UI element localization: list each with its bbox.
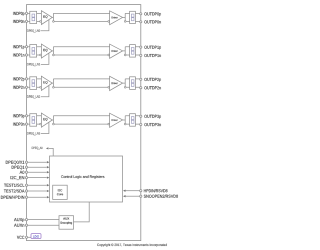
channel 0 output wires [135, 13, 139, 21]
wire VCC to LDO [28, 236, 31, 238]
output pin OUTDP0n [140, 21, 142, 23]
EQ amplifier ch1 [41, 44, 52, 58]
driver inverting input bubble [108, 21, 110, 23]
channel 0 input wires [28, 13, 42, 21]
EQ output bar and wires to driver [52, 13, 109, 21]
wire AUXp [28, 219, 59, 221]
pin AUXp [25, 219, 27, 221]
output pin OUTDP2p [140, 78, 142, 80]
output pin OUTDP0p [140, 13, 142, 15]
channel 1 input wires [28, 47, 42, 55]
input pin INDP1p [25, 46, 27, 48]
output coupling caps block ch2 [130, 77, 136, 90]
EQ inverting output bubble [53, 21, 55, 23]
wire I2C_EN to control logic [28, 177, 47, 179]
output pin OUTDP2n [140, 87, 142, 89]
control pin DPEQ0/X1 [25, 161, 27, 163]
channel 2 input wires [28, 79, 42, 87]
EQ inverting input bubble [40, 86, 42, 88]
input pin INDP1n [25, 54, 27, 56]
input coupling caps block ch0 [30, 11, 37, 23]
control pin A0 [25, 171, 27, 173]
input coupling caps block ch3 [30, 114, 37, 127]
wire DPEQ1 to control logic [28, 166, 47, 168]
wire DPEQ0/X1 to control logic [28, 161, 47, 163]
driver inverting output bubble [124, 86, 126, 88]
pin VCC [25, 236, 27, 238]
EQ select net DPEQ_LN1 [41, 53, 49, 64]
driver output bar and wires [123, 116, 130, 124]
input pin INDP3n [25, 123, 27, 125]
control pin TEST1/SCL [25, 184, 27, 186]
driver output bar and wires [123, 47, 130, 55]
wire HPDIN to control logic [125, 190, 139, 192]
wire AUXn [28, 224, 59, 226]
output pin OUTDP3n [140, 123, 142, 125]
driver inverting output bubble [124, 54, 126, 56]
control logic block [50, 156, 123, 202]
EQ amplifier ch0 [41, 11, 52, 25]
driver amplifier ch1 [110, 44, 123, 58]
wire AUX block to control logic [74, 202, 90, 222]
AUX snooping block [59, 216, 74, 230]
driver inverting output bubble [124, 123, 126, 125]
control pin DPEQ1 [25, 166, 27, 168]
control pin DPEN/HPDIN [25, 196, 27, 198]
EQ inverting output bubble [53, 86, 55, 88]
output coupling caps block ch3 [130, 114, 136, 127]
EQ inverting output bubble [53, 123, 55, 125]
EQ output bar and wires to driver [52, 47, 109, 55]
EQ inverting input bubble [40, 54, 42, 56]
EQ select net DPEQ_LN3 [41, 122, 49, 133]
driver inverting input bubble [108, 54, 110, 56]
driver inverting output bubble [124, 21, 126, 23]
input pin INDP0n [25, 20, 27, 22]
control pin TEST2/SDA [25, 190, 27, 192]
driver inverting input bubble [108, 123, 110, 125]
driver output bar and wires [123, 79, 130, 87]
input pin INDP2p [25, 78, 27, 80]
LDO regulator link box [31, 234, 41, 239]
driver amplifier ch2 [110, 76, 123, 90]
wire TEST2/SDA to control logic [28, 190, 47, 192]
pin AUXn [25, 224, 27, 226]
channel 1 output wires [135, 47, 139, 55]
EQ amplifier ch2 [41, 76, 52, 90]
chip outline [27, 5, 141, 241]
EQ output bar and wires to driver [52, 116, 109, 124]
wire TEST1/SCL to control logic [28, 184, 47, 186]
EQ amplifier ch3 [41, 113, 52, 127]
channel 3 output wires [135, 116, 139, 124]
output coupling caps block ch1 [130, 45, 136, 58]
input pin INDP0p [25, 12, 27, 14]
EQ inverting output bubble [53, 54, 55, 56]
EQ output bar and wires to driver [52, 79, 109, 87]
EQ select net DPEQ_LN0 [41, 20, 49, 31]
output coupling caps block ch0 [130, 11, 136, 23]
output pin OUTDP1p [140, 46, 142, 48]
channel 2 output wires [135, 79, 139, 87]
input coupling caps block ch1 [30, 45, 37, 58]
output pin OUTDP3p [140, 115, 142, 117]
wire DPEN/HPDIN to control logic [28, 196, 47, 198]
driver amplifier ch0 [110, 11, 123, 25]
input coupling caps block ch2 [30, 77, 37, 90]
control pin I2C_EN [25, 177, 27, 179]
wire SNOOPEN2 to control logic [125, 195, 139, 197]
driver output bar and wires [123, 13, 130, 21]
output pin OUTDP1n [140, 54, 142, 56]
channel 3 input wires [28, 116, 42, 124]
input pin INDP2n [25, 86, 27, 88]
I2C core block [53, 185, 67, 199]
input pin INDP3p [25, 115, 27, 117]
copyright note [97, 244, 167, 247]
pin SNOOPEN2/RSVD8 [140, 195, 142, 197]
EQ inverting input bubble [40, 123, 42, 125]
EQ inverting input bubble [40, 21, 42, 23]
EQ select net DPEQ_LN2 [41, 86, 49, 97]
pin HPDIN/RSVD8 [140, 190, 142, 192]
net DPEQ_A0 to control logic [49, 148, 53, 156]
wire A0 to control logic [28, 171, 47, 173]
driver inverting input bubble [108, 86, 110, 88]
driver amplifier ch3 [110, 113, 123, 127]
